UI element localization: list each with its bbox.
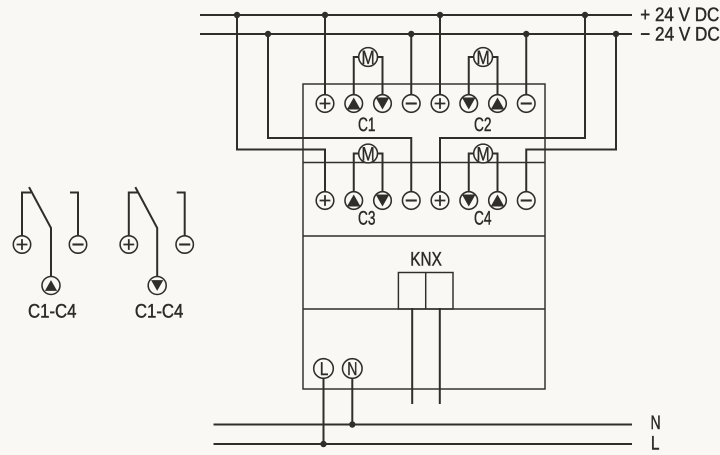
wire C2 + feed (439, 15, 441, 95)
svg-text:C3: C3 (358, 207, 376, 229)
wire +24V DC rail (201, 14, 631, 16)
device internal divider 1 (303, 162, 545, 164)
wire M3 right lead (378, 154, 383, 192)
wire switch S2 + lead (129, 193, 137, 236)
S2 terminal + (120, 236, 137, 253)
label N (651, 412, 661, 434)
wire KNX bus + (411, 309, 413, 403)
node +24V / C2 feed junction (437, 12, 443, 18)
wire -24V DC rail (201, 33, 631, 35)
svg-text:C1: C1 (358, 114, 376, 136)
C1 terminal UP (345, 95, 363, 113)
node +24V / C3 feed junction (234, 12, 240, 18)
label C2 (474, 114, 492, 136)
S2 terminal DOWN (148, 277, 166, 295)
motor M1 (359, 47, 378, 69)
C1 terminal DOWN (374, 95, 392, 113)
C3 terminal DOWN (374, 192, 392, 210)
wire M2 left lead (469, 57, 474, 95)
wire M1 right lead (378, 57, 383, 95)
svg-text:KNX: KNX (410, 249, 442, 271)
label S1 C1-C4 (28, 301, 77, 323)
node -24V / C1 feed junction (408, 31, 414, 37)
C4 terminal UP (489, 192, 507, 210)
svg-text:C4: C4 (474, 207, 492, 229)
svg-text:C1-C4: C1-C4 (135, 301, 184, 323)
node -24V / C3 feed junction (265, 31, 271, 37)
label C1 (358, 114, 376, 136)
node -24V / C2 feed junction (523, 31, 529, 37)
svg-text:C2: C2 (474, 114, 492, 136)
wire C2 - feed (525, 34, 527, 95)
C3 terminal UP (345, 192, 363, 210)
label L (651, 433, 660, 455)
svg-text:L: L (651, 433, 660, 455)
wire switch S1 + lead (22, 193, 30, 236)
terminal L (314, 358, 334, 379)
label KNX (410, 249, 442, 271)
wire C4 + feed (440, 15, 585, 192)
wire L terminal to L rail (323, 378, 325, 444)
terminal N (343, 358, 363, 379)
svg-text:C1-C4: C1-C4 (28, 301, 77, 323)
wire N terminal to N rail (351, 378, 353, 424)
C1 terminal + (316, 95, 334, 113)
label +24V DC (640, 4, 719, 26)
wire KNX bus - (439, 309, 441, 403)
svg-text:M: M (362, 47, 375, 69)
wire C4 - feed (526, 34, 616, 192)
wire C3 + feed (237, 15, 325, 192)
motor M3 (359, 144, 378, 166)
svg-text:N: N (347, 358, 357, 379)
S2 terminal - (176, 236, 193, 253)
C2 terminal UP (489, 95, 507, 113)
node +24V / C1 feed junction (322, 12, 328, 18)
C4 terminal DOWN (460, 192, 478, 210)
svg-text:M: M (477, 144, 490, 166)
C1 terminal - (402, 95, 420, 113)
motor M4 (474, 144, 493, 166)
label -24V DC (640, 23, 720, 45)
wire C1 - feed (410, 34, 412, 95)
S1 terminal UP (42, 277, 60, 295)
label C3 (358, 207, 376, 229)
C4 terminal - (517, 192, 535, 210)
svg-text:N: N (651, 412, 661, 434)
svg-text:M: M (477, 47, 490, 69)
node N junction (349, 421, 355, 427)
wire switch S2 blade (136, 188, 157, 277)
S1 terminal - (69, 236, 86, 253)
motor M2 (474, 47, 493, 69)
svg-text:− 24 V DC: − 24 V DC (640, 23, 720, 45)
svg-text:M: M (362, 144, 375, 166)
C3 terminal + (316, 192, 334, 210)
node L junction (320, 441, 326, 447)
wire switch S1 - lead (71, 193, 78, 236)
C2 terminal - (517, 95, 535, 113)
label S2 C1-C4 (135, 301, 184, 323)
C3 terminal - (402, 192, 420, 210)
wire N rail (215, 424, 632, 426)
wire L rail (215, 443, 632, 445)
wire M1 left lead (354, 57, 359, 95)
device enclosure box (303, 84, 545, 389)
wire C3 - feed (268, 34, 411, 192)
KNX bus connector block (398, 273, 453, 310)
wire M4 left lead (469, 154, 474, 192)
wire C1 + feed (324, 15, 326, 95)
label C4 (474, 207, 492, 229)
C2 terminal + (431, 95, 449, 113)
wire M4 right lead (493, 154, 498, 192)
wire switch S2 - lead (178, 193, 185, 236)
C2 terminal DOWN (460, 95, 478, 113)
wire M3 left lead (354, 154, 359, 192)
S1 terminal + (13, 236, 30, 253)
wire switch S1 blade (30, 188, 52, 277)
wire M2 right lead (493, 57, 498, 95)
node +24V / C4 feed junction (582, 12, 588, 18)
svg-text:L: L (320, 358, 329, 379)
C4 terminal + (431, 192, 449, 210)
device internal divider 3 (303, 308, 545, 310)
device internal divider 2 (303, 235, 545, 237)
node -24V / C4 feed junction (613, 31, 619, 37)
